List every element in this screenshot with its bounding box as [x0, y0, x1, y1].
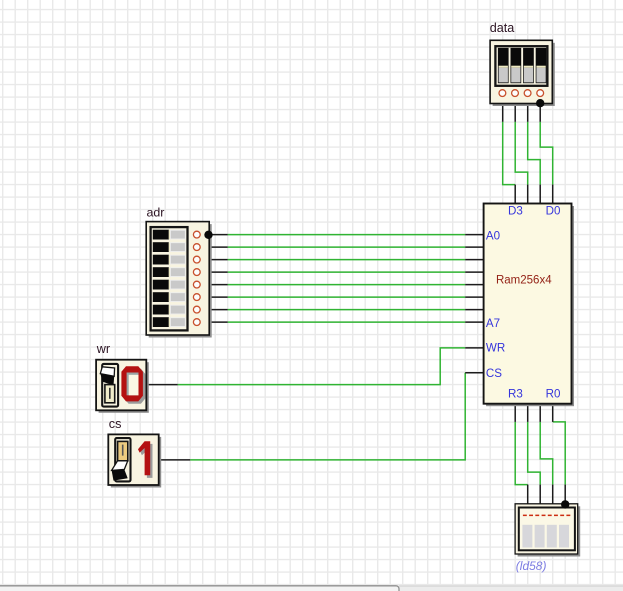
scrollbar thumb [0, 586, 399, 591]
wire net ADR5 (S2 pin6 to U1 A5) [209, 296, 484, 298]
svg-text:wr: wr [96, 342, 110, 356]
svg-text:CS: CS [486, 367, 502, 380]
svg-text:Ram256x4: Ram256x4 [496, 274, 552, 286]
wire net R2 (U1 R2 to U2 pin2) [528, 404, 541, 504]
svg-text:(ld58): (ld58) [516, 559, 547, 573]
scrollbar track [0, 585, 623, 591]
wire net DATA2 (S1 pin2 to U1 D2) [515, 103, 528, 203]
svg-text:A7: A7 [486, 317, 500, 330]
wire net DATA3 (S1 pin1 to U1 D3) [503, 103, 516, 203]
wire net ADR7 (S2 pin8 to U1 A7) [209, 321, 484, 323]
svg-text:R3: R3 [508, 387, 523, 400]
junction on U2 pin 4 [561, 500, 569, 508]
wire net CS (S4 to U1 CS) [159, 373, 484, 460]
wire net ADR2 (S2 pin3 to U1 A2) [209, 259, 484, 261]
wire net R3 (U1 R3 to U2 pin1) [515, 404, 528, 504]
switch S1 "data" 4-bit DIP [490, 40, 555, 106]
wire net ADR3 (S2 pin4 to U1 A3) [209, 271, 484, 273]
wire net WR (S3 to U1 WR) [146, 348, 484, 385]
wire net ADR0 (S2 pin1 to U1 A0) [209, 234, 484, 236]
svg-text:data: data [490, 21, 515, 35]
switch S3 "wr" toggle, state 0 [96, 360, 149, 413]
wire net DATA0 (S1 pin4 to U1 D0) [540, 103, 553, 203]
svg-text:cs: cs [109, 417, 122, 431]
svg-text:WR: WR [486, 342, 505, 355]
svg-text:A0: A0 [486, 229, 500, 242]
junction on S1 pin 4 [536, 99, 544, 107]
wire net ADR4 (S2 pin5 to U1 A4) [209, 284, 484, 286]
wire net ADR6 (S2 pin7 to U1 A6) [209, 309, 484, 311]
wire net R0 (U1 R0 to U2 pin4) [553, 404, 566, 504]
svg-text:adr: adr [147, 206, 165, 220]
RAM U1 Ram256x4 body [484, 204, 574, 407]
switch S2 "adr" 8-bit DIP [146, 222, 212, 338]
wire net R1 (U1 R1 to U2 pin3) [540, 404, 553, 504]
svg-text:D0: D0 [546, 205, 561, 218]
wire net ADR1 (S2 pin2 to U1 A1) [209, 246, 484, 248]
display U2 (ld58) LED module [515, 504, 580, 557]
switch S4 "cs" toggle, state 1 [108, 434, 161, 487]
svg-text:R0: R0 [546, 387, 561, 400]
svg-text:D3: D3 [508, 205, 523, 218]
junction on S2 pin 1 [204, 231, 212, 239]
wire net DATA1 (S1 pin3 to U1 D1) [528, 103, 541, 203]
